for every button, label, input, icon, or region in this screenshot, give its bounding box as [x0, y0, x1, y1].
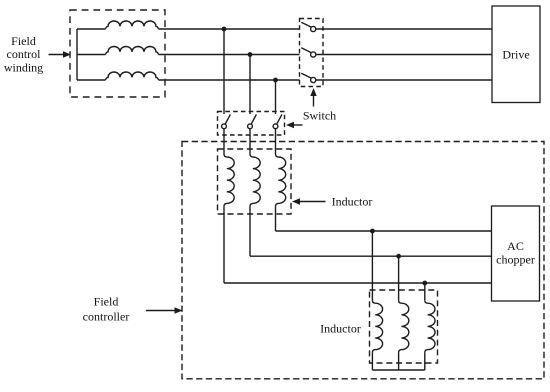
switch S4 blade: [225, 114, 230, 124]
inductor L7: [372, 300, 382, 352]
inductor group 1 box (dashed): [218, 149, 292, 214]
wire: L7 to star bar: [371, 353, 373, 370]
node D (on chopper line 1): [370, 229, 375, 234]
switch S1 contact circle: [311, 26, 316, 31]
wire: L9 to star bar: [424, 353, 426, 370]
arrow left to switch group 2: [286, 122, 303, 128]
Drive block: [492, 6, 540, 103]
node A (tap on phase A line): [222, 27, 227, 32]
switch group 1 box (dashed): [300, 19, 324, 87]
inductor group 2 box (dashed): [370, 290, 438, 363]
wire: chopper line 3 (bottom): [224, 282, 492, 284]
wire: S4 to inductor L4: [223, 129, 225, 154]
wire: S1 to Drive: [316, 28, 492, 30]
wire: bus to inductor L1: [77, 28, 106, 30]
wire: bus to inductor L3: [77, 79, 106, 81]
svg-text:Field: Field: [11, 34, 36, 48]
field control winding box (dashed): [70, 10, 165, 97]
svg-text:AC: AC: [507, 239, 524, 253]
wire: star point bar: [372, 369, 424, 371]
wire: L8 to star bar: [398, 353, 400, 370]
wire: node B down to switch S5: [249, 55, 251, 115]
wire: L3 to switch S3: [159, 79, 300, 81]
switch S4 contact circle: [222, 124, 227, 129]
AC chopper block: [492, 206, 540, 301]
wire: L1 to switch S1: [159, 28, 300, 30]
svg-text:controller: controller: [83, 309, 130, 323]
wire: L5 to chopper line 2: [249, 206, 251, 256]
wire: node F down to inductor L9: [424, 283, 426, 300]
inductor L2 (field winding phase B): [106, 47, 159, 55]
node B (tap on phase B line): [248, 52, 253, 57]
wire: chopper line 1 (top): [276, 230, 492, 232]
arrow to field control winding: [49, 51, 72, 57]
node C (tap on phase C line): [273, 78, 278, 83]
switch S2 contact circle: [311, 52, 316, 57]
wire: bus to inductor L2: [77, 54, 106, 56]
svg-text:Inductor: Inductor: [332, 194, 373, 208]
wire: node E down to inductor L8: [398, 256, 400, 300]
inductor L1 (field winding phase A): [106, 21, 159, 29]
arrow to field controller box: [146, 307, 183, 313]
switch S5 contact circle: [248, 124, 253, 129]
switch S3 contact circle: [311, 77, 316, 82]
inductor L3 (field winding phase C): [106, 72, 159, 80]
svg-text:Field: Field: [94, 295, 119, 309]
wire: L2 to switch S2: [159, 54, 300, 56]
field controller box (dashed): [182, 142, 544, 379]
node E (on chopper line 2): [396, 254, 401, 259]
switch S1 blade: [301, 22, 311, 27]
wire: chopper line 2 (middle): [250, 255, 492, 257]
wire: S2 to Drive: [316, 54, 492, 56]
wire: S6 to inductor L6: [275, 129, 277, 154]
inductor L9: [425, 300, 435, 352]
svg-text:Inductor: Inductor: [320, 321, 361, 335]
switch group 2 box (dashed): [218, 112, 285, 136]
node F (on chopper line 3): [422, 281, 427, 286]
label: Field control winding: [4, 34, 43, 74]
wire: S3 to Drive: [316, 79, 492, 81]
switch S5 blade: [251, 114, 256, 124]
arrow up to switch group 1: [310, 88, 316, 107]
inductor L5: [250, 154, 260, 206]
inductor L8: [399, 300, 409, 352]
arrow left to inductor group 1: [292, 198, 326, 204]
winding bus wire (vertical): [76, 29, 78, 80]
switch S3 blade: [301, 73, 311, 78]
wire: S5 to inductor L5: [249, 129, 251, 154]
svg-text:Drive: Drive: [502, 47, 529, 61]
AC chopper label: [496, 239, 535, 266]
svg-text:Switch: Switch: [303, 109, 336, 123]
label: Field controller: [83, 295, 130, 324]
switch S6 contact circle: [273, 124, 278, 129]
svg-text:winding: winding: [4, 60, 43, 74]
wire: node D down to inductor L7: [371, 231, 373, 300]
switch S6 blade: [277, 114, 282, 124]
inductor L4: [224, 154, 234, 206]
wire: L4 to chopper line 3: [223, 206, 225, 283]
wire: L6 to chopper line 1: [275, 206, 277, 231]
svg-text:control: control: [7, 47, 42, 61]
inductor L6: [276, 154, 286, 206]
svg-text:chopper: chopper: [496, 252, 535, 266]
wire: node C down to switch S6: [275, 80, 277, 114]
switch S2 blade: [301, 48, 311, 53]
wire: node A down to switch S4: [223, 29, 225, 114]
